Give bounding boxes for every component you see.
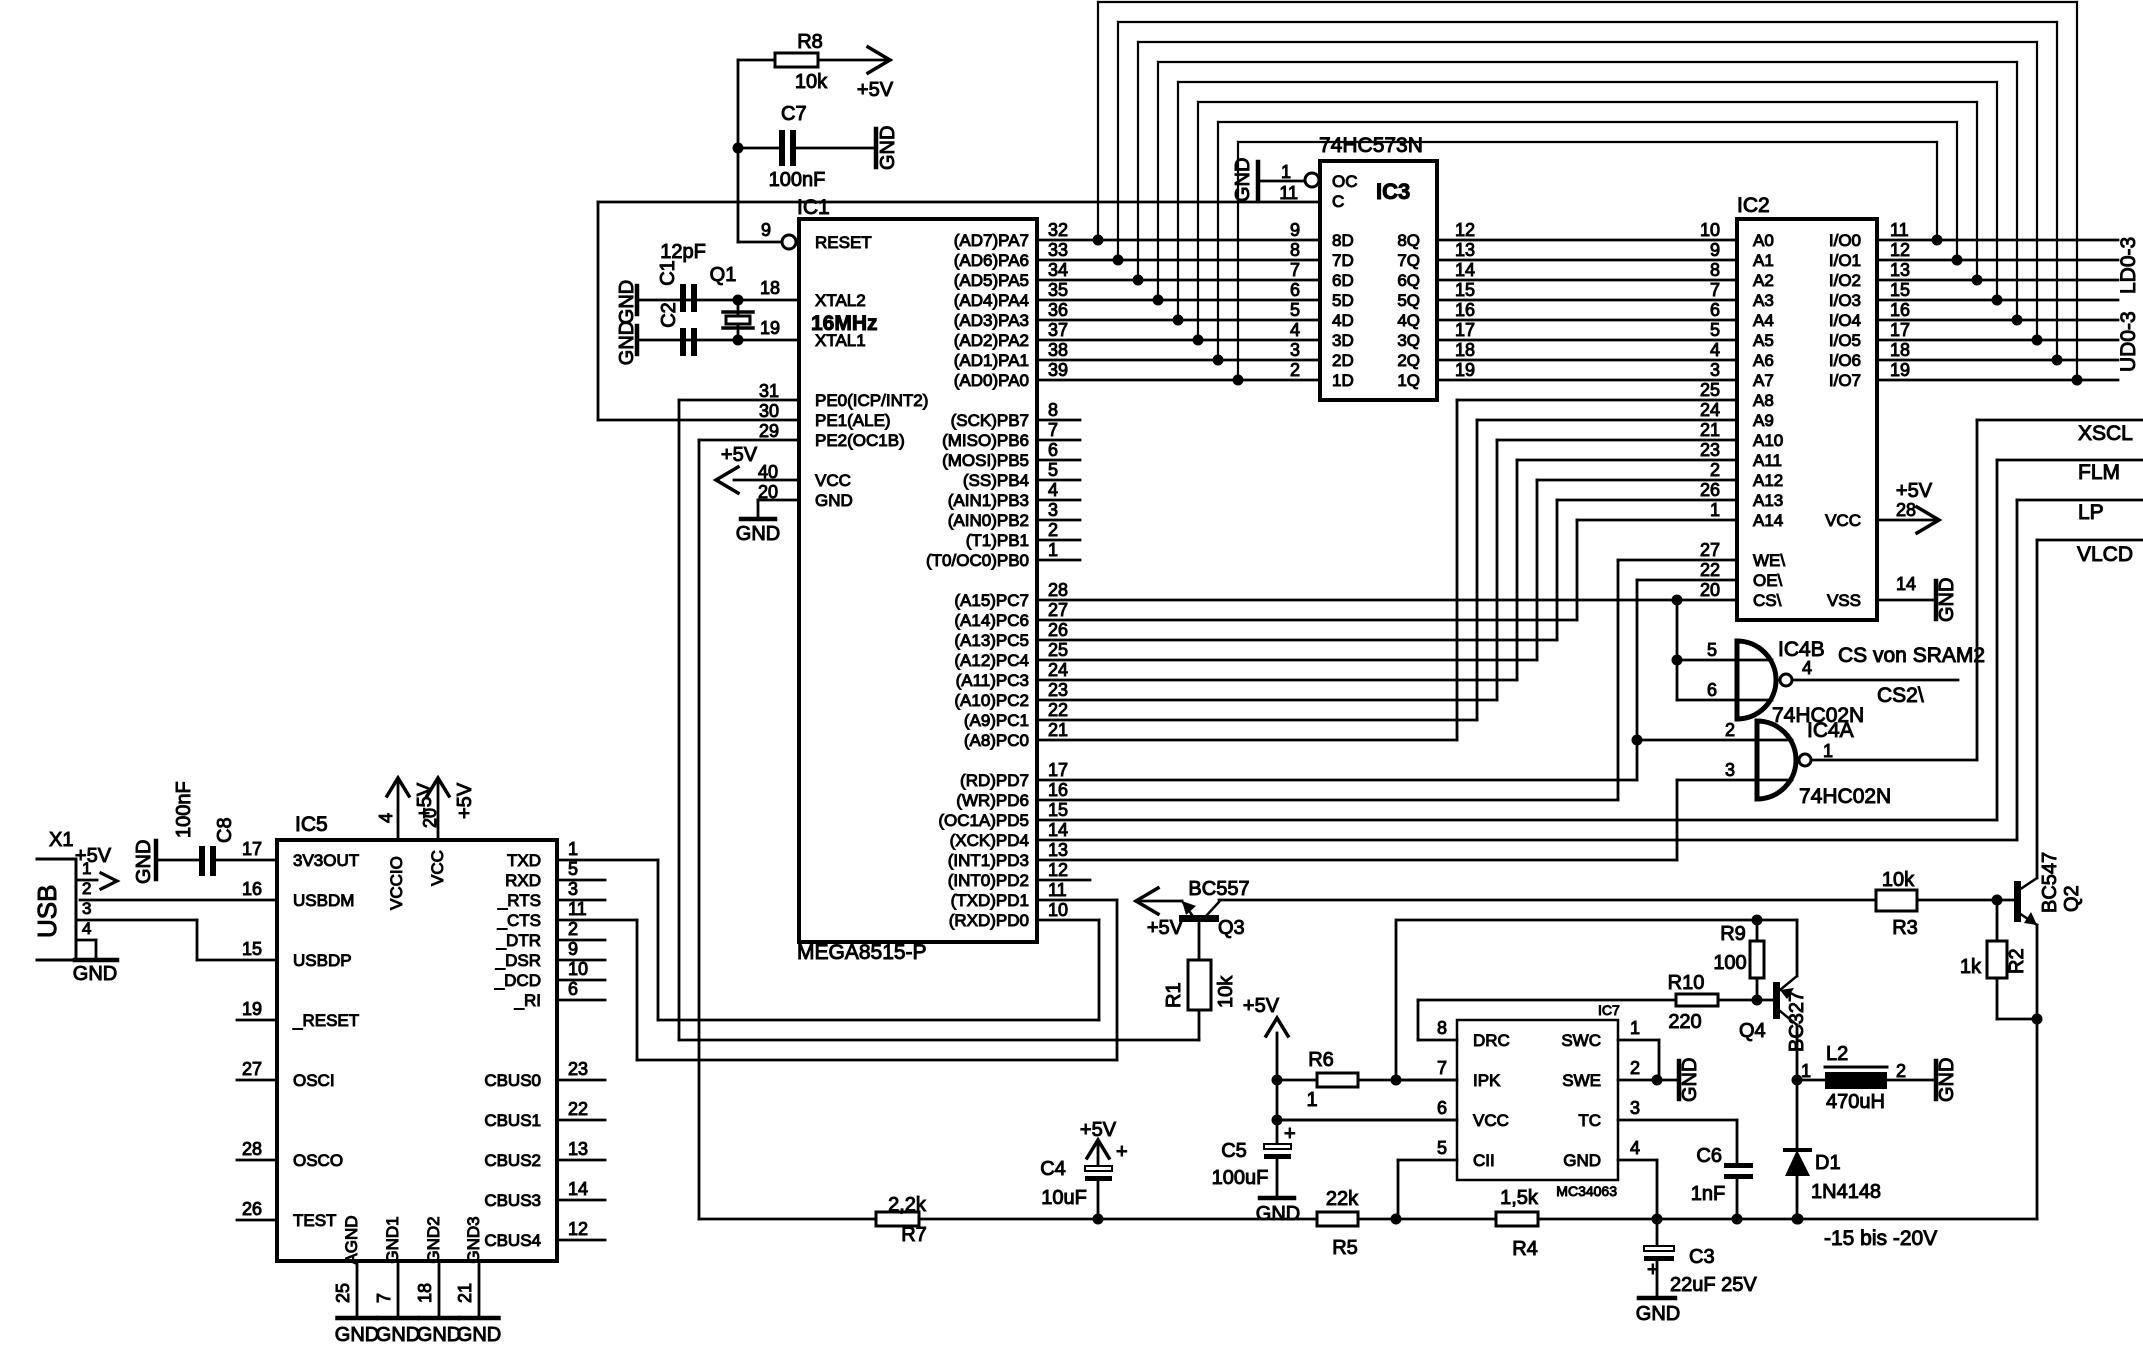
- svg-text:TC: TC: [1578, 1111, 1601, 1130]
- svg-text:35: 35: [1048, 280, 1068, 300]
- svg-text:7D: 7D: [1332, 251, 1354, 270]
- svg-text:21: 21: [1700, 420, 1720, 440]
- svg-text:A6: A6: [1753, 351, 1774, 370]
- svg-text:2: 2: [1290, 360, 1300, 380]
- svg-text:RESET: RESET: [815, 233, 872, 252]
- svg-text:GND: GND: [1936, 1058, 1958, 1102]
- svg-text:IC4B: IC4B: [1778, 638, 1825, 661]
- svg-text:38: 38: [1048, 340, 1068, 360]
- svg-text:X1: X1: [49, 829, 73, 851]
- svg-text:(WR)PD6: (WR)PD6: [956, 791, 1029, 810]
- svg-text:16: 16: [242, 879, 262, 899]
- svg-text:GND: GND: [417, 1324, 461, 1346]
- svg-text:13: 13: [1455, 240, 1475, 260]
- svg-text:2: 2: [1710, 460, 1720, 480]
- svg-text:7Q: 7Q: [1397, 251, 1420, 270]
- svg-text:BC547: BC547: [2039, 852, 2061, 913]
- svg-text:CBUS3: CBUS3: [484, 1191, 541, 1210]
- svg-text:+5V: +5V: [1896, 480, 1933, 502]
- svg-text:A8: A8: [1753, 391, 1774, 410]
- svg-text:26: 26: [1048, 620, 1068, 640]
- svg-text:14: 14: [568, 1179, 588, 1199]
- svg-text:C7: C7: [781, 103, 807, 125]
- svg-text:I/O1: I/O1: [1829, 251, 1861, 270]
- svg-text:3: 3: [82, 899, 91, 918]
- svg-text:13: 13: [1890, 260, 1910, 280]
- svg-text:I/O3: I/O3: [1829, 291, 1861, 310]
- svg-text:(AD5)PA5: (AD5)PA5: [954, 271, 1029, 290]
- svg-text:16: 16: [1455, 300, 1475, 320]
- svg-text:I/O6: I/O6: [1829, 351, 1861, 370]
- svg-text:13: 13: [1048, 840, 1068, 860]
- svg-text:1: 1: [1710, 500, 1720, 520]
- svg-text:_DSR: _DSR: [495, 951, 541, 970]
- svg-text:GND: GND: [335, 1324, 379, 1346]
- svg-text:15: 15: [242, 939, 262, 959]
- svg-text:3: 3: [1725, 760, 1735, 780]
- svg-text:15: 15: [1890, 280, 1910, 300]
- svg-text:TXD: TXD: [507, 851, 541, 870]
- svg-text:1: 1: [1630, 1018, 1640, 1038]
- svg-text:MC34063: MC34063: [1556, 1183, 1617, 1199]
- svg-text:20: 20: [758, 482, 778, 502]
- svg-text:3V3OUT: 3V3OUT: [293, 851, 359, 870]
- svg-text:(RXD)PD0: (RXD)PD0: [949, 911, 1029, 930]
- svg-text:GND2: GND2: [424, 1216, 443, 1263]
- svg-text:Q3: Q3: [1218, 917, 1245, 939]
- svg-text:100: 100: [1713, 952, 1746, 974]
- svg-text:4: 4: [82, 919, 91, 938]
- svg-text:GND: GND: [616, 280, 638, 324]
- svg-text:22k: 22k: [1326, 1188, 1359, 1210]
- svg-text:C3: C3: [1689, 1246, 1715, 1268]
- svg-text:+: +: [1284, 1123, 1296, 1145]
- svg-text:34: 34: [1048, 260, 1068, 280]
- svg-text:VLCD: VLCD: [2077, 543, 2133, 566]
- svg-text:PE1(ALE): PE1(ALE): [815, 411, 891, 430]
- svg-text:7: 7: [1710, 280, 1720, 300]
- svg-text:4: 4: [1290, 320, 1300, 340]
- svg-text:7: 7: [1048, 420, 1058, 440]
- svg-text:Q1: Q1: [710, 264, 737, 286]
- svg-text:13: 13: [568, 1139, 588, 1159]
- svg-text:3: 3: [1710, 360, 1720, 380]
- svg-text:12: 12: [1890, 240, 1910, 260]
- svg-text:+5V: +5V: [721, 444, 758, 466]
- svg-text:12: 12: [568, 1219, 588, 1239]
- svg-text:14: 14: [1048, 820, 1068, 840]
- svg-text:_RESET: _RESET: [292, 1011, 359, 1030]
- svg-text:SWC: SWC: [1561, 1031, 1601, 1050]
- svg-text:(INT1)PD3: (INT1)PD3: [948, 851, 1029, 870]
- svg-text:GND: GND: [1232, 158, 1254, 202]
- svg-text:24: 24: [1700, 400, 1720, 420]
- svg-text:CII: CII: [1473, 1151, 1495, 1170]
- svg-text:3: 3: [1630, 1098, 1640, 1118]
- svg-text:2,2k: 2,2k: [888, 1194, 927, 1216]
- svg-text:C: C: [1332, 192, 1344, 211]
- svg-text:2: 2: [82, 879, 91, 898]
- svg-text:8: 8: [1290, 240, 1300, 260]
- svg-text:I/O5: I/O5: [1829, 331, 1861, 350]
- svg-text:26: 26: [242, 1199, 262, 1219]
- svg-text:-15 bis -20V: -15 bis -20V: [1824, 1227, 1937, 1250]
- svg-text:19: 19: [242, 999, 262, 1019]
- svg-text:IC3: IC3: [1376, 179, 1410, 204]
- svg-text:10k: 10k: [1215, 975, 1237, 1008]
- svg-text:5: 5: [1707, 640, 1717, 660]
- svg-text:A7: A7: [1753, 371, 1774, 390]
- svg-text:DRC: DRC: [1473, 1031, 1510, 1050]
- svg-text:32: 32: [1048, 220, 1068, 240]
- svg-text:+5V: +5V: [1243, 995, 1280, 1017]
- svg-text:_DCD: _DCD: [494, 971, 541, 990]
- svg-text:2: 2: [568, 919, 578, 939]
- svg-text:17: 17: [242, 839, 262, 859]
- svg-text:MEGA8515-P: MEGA8515-P: [797, 941, 927, 964]
- svg-text:GND: GND: [736, 523, 780, 545]
- svg-text:16: 16: [1048, 780, 1068, 800]
- svg-text:4: 4: [1802, 658, 1812, 678]
- svg-text:11: 11: [1890, 220, 1909, 240]
- svg-text:100nF: 100nF: [173, 781, 195, 838]
- svg-text:(SS)PB4: (SS)PB4: [963, 471, 1029, 490]
- svg-text:CBUS0: CBUS0: [484, 1071, 541, 1090]
- svg-text:(AD2)PA2: (AD2)PA2: [954, 331, 1029, 350]
- svg-text:3Q: 3Q: [1397, 331, 1420, 350]
- svg-text:3: 3: [1290, 340, 1300, 360]
- svg-text:I/O7: I/O7: [1829, 371, 1861, 390]
- svg-text:XTAL2: XTAL2: [815, 291, 866, 310]
- svg-text:3: 3: [568, 879, 578, 899]
- svg-text:10k: 10k: [795, 71, 828, 93]
- svg-text:16: 16: [1890, 300, 1910, 320]
- svg-text:2: 2: [1896, 1061, 1906, 1081]
- svg-text:(A12)PC4: (A12)PC4: [954, 651, 1029, 670]
- svg-text:37: 37: [1048, 320, 1068, 340]
- svg-text:12pF: 12pF: [660, 241, 706, 263]
- svg-text:R9: R9: [1720, 923, 1746, 945]
- svg-text:(A9)PC1: (A9)PC1: [964, 711, 1029, 730]
- svg-text:CS\: CS\: [1753, 591, 1782, 610]
- svg-text:GND: GND: [1563, 1151, 1601, 1170]
- svg-text:IPK: IPK: [1473, 1071, 1501, 1090]
- svg-text:Q4: Q4: [1739, 1020, 1766, 1042]
- svg-text:OC: OC: [1332, 172, 1358, 191]
- svg-text:OE\: OE\: [1753, 571, 1783, 590]
- svg-text:5: 5: [1048, 460, 1058, 480]
- svg-text:1: 1: [82, 859, 91, 878]
- svg-text:C8: C8: [214, 817, 236, 843]
- svg-text:24: 24: [1048, 660, 1068, 680]
- svg-text:6Q: 6Q: [1397, 271, 1420, 290]
- svg-text:7: 7: [1437, 1058, 1447, 1078]
- svg-text:(AD7)PA7: (AD7)PA7: [954, 231, 1029, 250]
- svg-text:USBDP: USBDP: [293, 951, 352, 970]
- svg-text:+5V: +5V: [75, 845, 112, 867]
- svg-text:(TXD)PD1: (TXD)PD1: [951, 891, 1029, 910]
- svg-text:R10: R10: [1668, 972, 1705, 994]
- svg-text:28: 28: [1896, 500, 1916, 520]
- svg-text:R7: R7: [901, 1224, 927, 1246]
- svg-text:(MISO)PB6: (MISO)PB6: [942, 431, 1029, 450]
- svg-text:L2: L2: [1826, 1043, 1848, 1065]
- svg-text:10uF: 10uF: [1041, 1187, 1087, 1209]
- svg-text:7: 7: [374, 1293, 394, 1303]
- svg-text:16MHz: 16MHz: [811, 312, 878, 335]
- svg-text:1: 1: [1801, 1061, 1811, 1081]
- svg-text:BC327: BC327: [1786, 991, 1808, 1052]
- svg-text:R3: R3: [1892, 917, 1918, 939]
- svg-text:15: 15: [1048, 800, 1068, 820]
- svg-text:21: 21: [1048, 720, 1068, 740]
- svg-text:3D: 3D: [1332, 331, 1354, 350]
- svg-text:C1: C1: [657, 260, 679, 286]
- svg-text:1: 1: [1306, 1089, 1317, 1111]
- svg-text:OSCI: OSCI: [293, 1071, 335, 1090]
- svg-text:(OC1A)PD5: (OC1A)PD5: [938, 811, 1029, 830]
- svg-text:5: 5: [1290, 300, 1300, 320]
- svg-text:_CTS: _CTS: [497, 911, 541, 930]
- svg-text:C2: C2: [658, 302, 680, 328]
- svg-text:(AD0)PA0: (AD0)PA0: [954, 371, 1029, 390]
- svg-text:VCC: VCC: [428, 850, 447, 886]
- svg-text:39: 39: [1048, 360, 1068, 380]
- svg-text:C6: C6: [1696, 1145, 1722, 1167]
- svg-text:VCC: VCC: [815, 471, 851, 490]
- svg-text:19: 19: [1890, 360, 1910, 380]
- svg-text:8: 8: [1048, 400, 1058, 420]
- svg-text:R4: R4: [1512, 1238, 1538, 1260]
- svg-text:CBUS2: CBUS2: [484, 1151, 541, 1170]
- svg-text:+: +: [1116, 1141, 1128, 1163]
- svg-text:C4: C4: [1040, 1158, 1066, 1180]
- svg-text:28: 28: [1048, 580, 1068, 600]
- svg-text:220: 220: [1668, 1011, 1701, 1033]
- svg-text:22uF 25V: 22uF 25V: [1670, 1274, 1757, 1296]
- svg-text:(A10)PC2: (A10)PC2: [954, 691, 1029, 710]
- svg-text:LD0-3: LD0-3: [2117, 237, 2140, 294]
- svg-text:GND3: GND3: [464, 1216, 483, 1263]
- svg-text:+5V: +5V: [414, 782, 436, 819]
- svg-text:11: 11: [1048, 880, 1067, 900]
- svg-text:1: 1: [1281, 162, 1291, 182]
- svg-text:1Q: 1Q: [1397, 371, 1420, 390]
- svg-text:11: 11: [1279, 183, 1298, 203]
- svg-text:GND: GND: [457, 1324, 501, 1346]
- svg-text:23: 23: [568, 1059, 588, 1079]
- svg-text:USB: USB: [32, 885, 62, 938]
- svg-text:14: 14: [1455, 260, 1475, 280]
- svg-text:1: 1: [1048, 540, 1058, 560]
- svg-text:8: 8: [1710, 260, 1720, 280]
- svg-text:(RD)PD7: (RD)PD7: [960, 771, 1029, 790]
- svg-text:1: 1: [1823, 741, 1833, 761]
- svg-text:11: 11: [568, 899, 587, 919]
- svg-text:27: 27: [1048, 600, 1068, 620]
- svg-text:25: 25: [333, 1283, 353, 1303]
- svg-text:CBUS4: CBUS4: [484, 1231, 541, 1250]
- svg-text:100uF: 100uF: [1212, 1167, 1269, 1189]
- svg-text:9: 9: [761, 220, 771, 240]
- svg-text:22: 22: [1048, 700, 1068, 720]
- svg-text:2: 2: [1048, 520, 1058, 540]
- svg-text:6: 6: [1707, 680, 1717, 700]
- svg-text:SWE: SWE: [1562, 1071, 1601, 1090]
- svg-text:9: 9: [1710, 240, 1720, 260]
- svg-text:1nF: 1nF: [1691, 1183, 1725, 1205]
- svg-text:31: 31: [759, 381, 779, 401]
- svg-text:5: 5: [1710, 320, 1720, 340]
- svg-text:A9: A9: [1753, 411, 1774, 430]
- svg-text:A2: A2: [1753, 271, 1774, 290]
- svg-text:XSCL: XSCL: [2078, 422, 2133, 445]
- svg-text:A13: A13: [1753, 491, 1783, 510]
- svg-text:1k: 1k: [1960, 956, 1982, 978]
- svg-text:25: 25: [1048, 640, 1068, 660]
- svg-text:18: 18: [1890, 340, 1910, 360]
- svg-text:(AD6)PA6: (AD6)PA6: [954, 251, 1029, 270]
- svg-text:(AD3)PA3: (AD3)PA3: [954, 311, 1029, 330]
- svg-text:5: 5: [568, 859, 578, 879]
- svg-text:8: 8: [1437, 1018, 1447, 1038]
- svg-text:IC4A: IC4A: [1807, 719, 1854, 742]
- svg-text:+5V: +5V: [1147, 917, 1184, 939]
- svg-text:23: 23: [1700, 440, 1720, 460]
- svg-text:74HC02N: 74HC02N: [1799, 785, 1891, 808]
- svg-text:A12: A12: [1753, 471, 1783, 490]
- svg-text:R1: R1: [1163, 982, 1185, 1008]
- svg-text:C5: C5: [1221, 1140, 1247, 1162]
- svg-text:GND: GND: [1679, 1058, 1701, 1102]
- svg-text:OSCO: OSCO: [293, 1151, 343, 1170]
- svg-text:12: 12: [1455, 220, 1475, 240]
- svg-text:(AD1)PA1: (AD1)PA1: [954, 351, 1029, 370]
- svg-text:IC2: IC2: [1737, 194, 1770, 217]
- svg-text:10: 10: [1048, 900, 1068, 920]
- svg-text:6D: 6D: [1332, 271, 1354, 290]
- svg-text:R2: R2: [2006, 948, 2028, 974]
- svg-text:GND: GND: [376, 1324, 420, 1346]
- svg-text:R5: R5: [1332, 1237, 1358, 1259]
- svg-text:10: 10: [568, 959, 588, 979]
- svg-text:22: 22: [1700, 560, 1720, 580]
- svg-text:IC1: IC1: [797, 196, 830, 219]
- svg-text:17: 17: [1455, 320, 1475, 340]
- svg-text:10k: 10k: [1882, 869, 1915, 891]
- svg-text:9: 9: [1290, 220, 1300, 240]
- svg-text:PE0(ICP/INT2): PE0(ICP/INT2): [815, 391, 928, 410]
- svg-text:27: 27: [1700, 540, 1720, 560]
- svg-text:GND: GND: [133, 840, 155, 884]
- svg-text:CS von SRAM2: CS von SRAM2: [1838, 644, 1985, 667]
- svg-text:A0: A0: [1753, 231, 1774, 250]
- svg-text:4D: 4D: [1332, 311, 1354, 330]
- svg-text:(XCK)PD4: (XCK)PD4: [950, 831, 1029, 850]
- svg-text:19: 19: [1455, 360, 1475, 380]
- svg-text:12: 12: [1048, 860, 1068, 880]
- svg-text:9: 9: [568, 939, 578, 959]
- svg-text:I/O2: I/O2: [1829, 271, 1861, 290]
- svg-text:GND1: GND1: [383, 1216, 402, 1263]
- svg-text:I/O0: I/O0: [1829, 231, 1861, 250]
- svg-text:CBUS1: CBUS1: [484, 1111, 541, 1130]
- svg-text:GND: GND: [815, 491, 853, 510]
- svg-text:6: 6: [1437, 1098, 1447, 1118]
- svg-text:5: 5: [1437, 1138, 1447, 1158]
- svg-text:_RTS: _RTS: [497, 891, 541, 910]
- svg-text:1,5k: 1,5k: [1500, 1187, 1539, 1209]
- svg-text:5D: 5D: [1332, 291, 1354, 310]
- svg-text:(MOSI)PB5: (MOSI)PB5: [942, 451, 1029, 470]
- svg-text:GND: GND: [1636, 1303, 1680, 1325]
- svg-text:22: 22: [568, 1099, 588, 1119]
- svg-text:14: 14: [1896, 574, 1916, 594]
- svg-text:GND: GND: [1936, 578, 1958, 622]
- svg-text:_DTR: _DTR: [496, 931, 541, 950]
- svg-text:A14: A14: [1753, 511, 1783, 530]
- svg-text:(AIN1)PB3: (AIN1)PB3: [948, 491, 1029, 510]
- svg-text:29: 29: [759, 421, 779, 441]
- svg-text:1: 1: [568, 839, 578, 859]
- svg-text:Q2: Q2: [2061, 885, 2083, 912]
- svg-text:A1: A1: [1753, 251, 1774, 270]
- svg-text:+: +: [1647, 1259, 1659, 1281]
- svg-text:D1: D1: [1815, 1152, 1841, 1174]
- svg-text:2: 2: [1630, 1058, 1640, 1078]
- svg-text:4Q: 4Q: [1397, 311, 1420, 330]
- svg-text:5Q: 5Q: [1397, 291, 1420, 310]
- svg-text:36: 36: [1048, 300, 1068, 320]
- svg-text:+5V: +5V: [454, 782, 476, 819]
- svg-text:AGND: AGND: [342, 1215, 361, 1264]
- svg-text:A5: A5: [1753, 331, 1774, 350]
- svg-text:(AIN0)PB2: (AIN0)PB2: [948, 511, 1029, 530]
- svg-text:3: 3: [1048, 500, 1058, 520]
- svg-text:18: 18: [415, 1283, 435, 1303]
- svg-text:IC5: IC5: [295, 813, 328, 836]
- svg-text:4: 4: [376, 813, 396, 823]
- svg-text:(INT0)PD2: (INT0)PD2: [948, 871, 1029, 890]
- svg-text:PE2(OC1B): PE2(OC1B): [815, 431, 905, 450]
- svg-text:R8: R8: [797, 31, 823, 53]
- svg-text:30: 30: [759, 401, 779, 421]
- svg-text:4: 4: [1710, 340, 1720, 360]
- svg-text:100nF: 100nF: [769, 169, 826, 191]
- svg-text:1D: 1D: [1332, 371, 1354, 390]
- svg-text:1N4148: 1N4148: [1811, 1181, 1881, 1203]
- svg-text:IC7: IC7: [1598, 1002, 1620, 1018]
- svg-text:LP: LP: [2078, 501, 2104, 524]
- svg-text:(T0/OC0)PB0: (T0/OC0)PB0: [926, 551, 1029, 570]
- svg-text:(SCK)PB7: (SCK)PB7: [951, 411, 1029, 430]
- svg-text:VCC: VCC: [1825, 511, 1861, 530]
- svg-text:_RI: _RI: [514, 991, 541, 1010]
- svg-text:2Q: 2Q: [1397, 351, 1420, 370]
- svg-text:GND: GND: [73, 963, 117, 985]
- svg-text:CS2\: CS2\: [1877, 684, 1924, 707]
- svg-text:A11: A11: [1753, 451, 1782, 470]
- svg-text:18: 18: [1455, 340, 1475, 360]
- svg-text:TEST: TEST: [293, 1211, 336, 1230]
- svg-text:(A11)PC3: (A11)PC3: [956, 671, 1029, 690]
- svg-text:27: 27: [242, 1059, 262, 1079]
- svg-text:15: 15: [1455, 280, 1475, 300]
- svg-text:+5V: +5V: [1080, 1119, 1117, 1141]
- svg-text:19: 19: [760, 318, 780, 338]
- svg-text:2D: 2D: [1332, 351, 1354, 370]
- svg-text:FLM: FLM: [2078, 461, 2120, 484]
